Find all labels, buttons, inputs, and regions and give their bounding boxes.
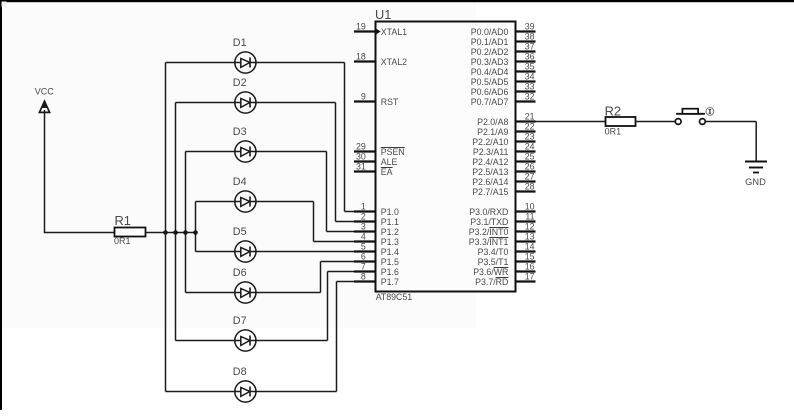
wire D3 vertical to pin row: [326, 152, 328, 232]
svg-text:D1: D1: [233, 37, 247, 49]
svg-text:P2.0/A8: P2.0/A8: [477, 117, 508, 127]
pin 22 (P2.1/A9) stub: [516, 130, 536, 132]
pin name P1.7: [381, 277, 399, 287]
pin name P0.3/AD3: [471, 57, 509, 67]
svg-text:32: 32: [525, 91, 535, 101]
pin name P3.5/T1: [478, 257, 509, 267]
wire D8 cathode side: [255, 391, 337, 393]
pin 13 (P3.3/INT1) stub: [516, 240, 536, 242]
svg-text:P1.5: P1.5: [381, 257, 399, 267]
wire D7 cathode side: [255, 340, 328, 342]
pin name P2.7/A15: [472, 187, 508, 197]
pin 33 (P0.6/AD6) stub: [516, 90, 536, 92]
wire D8 vertical to pin row: [336, 282, 338, 392]
svg-text:D4: D4: [233, 176, 247, 188]
pin name P0.1/AD1: [471, 37, 509, 47]
svg-text:21: 21: [525, 111, 535, 121]
wire D4 to chip pin: [314, 241, 376, 243]
svg-text:P2.3/A11: P2.3/A11: [473, 147, 509, 157]
pin name P2.2/A10: [472, 137, 508, 147]
svg-text:D7: D7: [233, 315, 247, 327]
pin 9 (RST) stub: [354, 100, 376, 102]
pin name P3.0/RXD: [469, 207, 508, 217]
IC U1 AT89C51 body: [375, 7, 516, 302]
pin 12 (P3.2/INT0) stub: [516, 230, 536, 232]
svg-text:0R1: 0R1: [114, 236, 131, 246]
svg-text:P2.4/A12: P2.4/A12: [472, 157, 508, 167]
pin name RST: [381, 97, 399, 107]
pin name P3.2/INT0: [469, 227, 509, 237]
pin name P1.0: [381, 207, 399, 217]
svg-text:27: 27: [525, 171, 535, 181]
wire D7 anode side: [176, 340, 237, 342]
pin name P1.1: [381, 217, 399, 227]
ground symbol GND: [745, 162, 767, 188]
svg-text:26: 26: [525, 161, 535, 171]
svg-text:P3.1/TXD: P3.1/TXD: [470, 217, 508, 227]
wire left vertical bus 4: [195, 202, 197, 252]
svg-text:P1.0: P1.0: [381, 207, 399, 217]
junction node J1: [163, 230, 168, 235]
wire pin 21 to R2: [536, 121, 606, 123]
pin 6 (P1.5) stub: [354, 260, 376, 262]
pin 26 (P2.5/A13) stub: [516, 170, 536, 172]
svg-text:D5: D5: [233, 226, 247, 238]
pin 23 (P2.2/A10) stub: [516, 140, 536, 142]
svg-text:P0.0/AD0: P0.0/AD0: [471, 27, 509, 37]
wire D8 to chip pin: [337, 281, 376, 283]
pin 19 (XTAL1) stub: [354, 30, 376, 32]
svg-text:P1.3: P1.3: [381, 237, 399, 247]
LED D1: [233, 37, 256, 73]
svg-text:2: 2: [361, 211, 366, 221]
svg-text:39: 39: [525, 21, 535, 31]
svg-text:VCC: VCC: [35, 87, 55, 97]
pin name P1.2: [381, 227, 399, 237]
svg-text:28: 28: [525, 181, 535, 191]
pin 5 (P1.4) stub: [354, 250, 376, 252]
pin name P0.4/AD4: [471, 67, 509, 77]
svg-text:D3: D3: [233, 126, 247, 138]
svg-text:5: 5: [361, 241, 366, 251]
svg-text:P2.7/A15: P2.7/A15: [472, 187, 508, 197]
pin 16 (P3.6/WR) stub: [516, 270, 536, 272]
wire switch to GND corner: [705, 121, 756, 123]
wire D4 cathode side: [255, 201, 314, 203]
svg-text:P0.2/AD2: P0.2/AD2: [471, 47, 509, 57]
pin name P0.5/AD5: [471, 77, 509, 87]
LED D6: [233, 267, 256, 303]
wire D5 anode side: [196, 251, 237, 253]
svg-text:GND: GND: [745, 177, 766, 187]
pin 10 (P3.0/RXD) stub: [516, 210, 536, 212]
pin name XTAL2: [381, 57, 407, 67]
pin name XTAL1: [376, 27, 407, 37]
pin 8 (P1.7) stub: [354, 280, 376, 282]
pin name P0.6/AD6: [471, 87, 509, 97]
pin name P1.3: [381, 237, 399, 247]
svg-text:9: 9: [361, 91, 366, 101]
pin 34 (P0.5/AD5) stub: [516, 80, 536, 82]
svg-text:P2.6/A14: P2.6/A14: [472, 177, 508, 187]
pin 32 (P0.7/AD7) stub: [516, 100, 536, 102]
junction node J2: [173, 230, 178, 235]
svg-text:P3.4/T0: P3.4/T0: [478, 247, 509, 257]
LED D5: [233, 226, 256, 262]
wire left vertical bus 1: [165, 63, 167, 392]
svg-text:P1.7: P1.7: [381, 277, 399, 287]
pin 4 (P1.3) stub: [354, 240, 376, 242]
svg-text:P3.0/RXD: P3.0/RXD: [469, 207, 508, 217]
wire left vertical bus 3: [185, 152, 187, 293]
wire VCC stem: [44, 110, 46, 233]
svg-text:8: 8: [361, 271, 366, 281]
wire R2 to switch: [635, 121, 675, 123]
pin name PSEN: [381, 147, 405, 157]
LED D7: [233, 315, 256, 351]
svg-text:P3.7/RD: P3.7/RD: [475, 277, 508, 287]
pin name P2.4/A12: [472, 157, 508, 167]
svg-text:P0.5/AD5: P0.5/AD5: [471, 77, 509, 87]
pin name P3.4/T0: [478, 247, 509, 257]
svg-text:17: 17: [525, 271, 535, 281]
pin name P3.3/INT1: [469, 237, 509, 247]
pin name P3.6/WR: [473, 267, 508, 277]
svg-text:16: 16: [525, 261, 535, 271]
pin name P2.5/A13: [472, 167, 508, 177]
pin 7 (P1.6) stub: [354, 270, 376, 272]
svg-text:35: 35: [525, 61, 535, 71]
LED D2: [233, 77, 256, 113]
pin 3 (P1.2) stub: [354, 230, 376, 232]
pin name P0.7/AD7: [471, 97, 509, 107]
wire R1 to LED bus: [146, 232, 196, 234]
switch actuation marker: [706, 108, 714, 116]
pin name P2.6/A14: [472, 177, 508, 187]
wire VCC to R1: [44, 232, 115, 234]
svg-text:24: 24: [525, 141, 535, 151]
svg-text:30: 30: [356, 151, 366, 161]
svg-text:31: 31: [356, 161, 366, 171]
svg-text:11: 11: [525, 211, 534, 221]
svg-text:P2.5/A13: P2.5/A13: [472, 167, 508, 177]
svg-text:ALE: ALE: [381, 157, 398, 167]
pin name P2.0/A8: [477, 117, 508, 127]
pin name P1.5: [381, 257, 399, 267]
wire D2 cathode side: [255, 102, 336, 104]
pin name P1.4: [381, 247, 399, 257]
wire D6 vertical to pin row: [320, 262, 322, 293]
pin 15 (P3.5/T1) stub: [516, 260, 536, 262]
pin 17 (P3.7/RD) stub: [516, 280, 536, 282]
svg-text:XTAL2: XTAL2: [381, 57, 407, 67]
svg-text:14: 14: [525, 241, 535, 251]
svg-text:P0.6/AD6: P0.6/AD6: [471, 87, 509, 97]
wire D1 anode side: [166, 62, 237, 64]
wire D1 cathode side: [255, 62, 345, 64]
svg-text:10: 10: [525, 201, 535, 211]
svg-text:36: 36: [525, 51, 535, 61]
wire D6 anode side: [186, 292, 237, 294]
svg-text:34: 34: [525, 71, 535, 81]
svg-text:EA: EA: [381, 167, 393, 177]
pin 14 (P3.4/T0) stub: [516, 250, 536, 252]
pin name P3.7/RD: [475, 277, 508, 287]
svg-text:P3.6/WR: P3.6/WR: [473, 267, 508, 277]
LED D4: [233, 176, 256, 212]
pin 36 (P0.3/AD3) stub: [516, 60, 536, 62]
svg-text:D8: D8: [233, 366, 247, 378]
svg-text:12: 12: [525, 221, 535, 231]
pin 30 (ALE) stub: [354, 160, 376, 162]
pin name P0.2/AD2: [471, 47, 509, 57]
junction node J4: [193, 230, 198, 235]
svg-text:D6: D6: [233, 267, 247, 279]
svg-text:P0.3/AD3: P0.3/AD3: [471, 57, 509, 67]
pin 39 (P0.0/AD0) stub: [516, 30, 536, 32]
svg-text:P3.2/INT0: P3.2/INT0: [469, 227, 509, 237]
wire D4 vertical to pin row: [313, 202, 315, 242]
wire D7 to chip pin: [328, 271, 376, 273]
wire D6 to chip pin: [321, 261, 376, 263]
pin 1 (P1.0) stub: [354, 210, 376, 212]
svg-text:P3.5/T1: P3.5/T1: [478, 257, 509, 267]
pin 24 (P2.3/A11) stub: [516, 150, 536, 152]
pin 2 (P1.1) stub: [354, 220, 376, 222]
svg-text:19: 19: [356, 21, 366, 31]
pin 11 (P3.1/TXD) stub: [516, 220, 536, 222]
wire D2 to chip pin: [336, 221, 376, 223]
svg-text:7: 7: [361, 261, 366, 271]
wire D8 anode side: [166, 391, 237, 393]
svg-text:D2: D2: [233, 77, 247, 89]
svg-text:29: 29: [356, 141, 366, 151]
wire D3 to chip pin: [327, 231, 376, 233]
pin 29 (PSEN) stub: [354, 150, 376, 152]
svg-text:6: 6: [361, 251, 366, 261]
wire D6 cathode side: [255, 292, 321, 294]
svg-text:P1.6: P1.6: [381, 267, 399, 277]
power symbol VCC: [35, 87, 55, 113]
svg-text:13: 13: [525, 231, 535, 241]
pin 25 (P2.4/A12) stub: [516, 160, 536, 162]
svg-text:P0.1/AD1: P0.1/AD1: [471, 37, 509, 47]
wire D3 cathode side: [255, 151, 327, 153]
svg-text:33: 33: [525, 81, 535, 91]
wire D4 anode side: [196, 201, 237, 203]
wire left vertical bus 2: [175, 103, 177, 341]
wire D7 vertical to pin row: [327, 272, 329, 341]
svg-text:R2: R2: [605, 103, 621, 118]
pin name EA: [381, 167, 393, 177]
svg-text:U1: U1: [375, 7, 391, 22]
pin name P1.6: [381, 267, 399, 277]
pin 18 (XTAL2) stub: [354, 60, 376, 62]
pin 27 (P2.6/A14) stub: [516, 180, 536, 182]
svg-text:18: 18: [356, 51, 366, 61]
pin name P2.1/A9: [477, 127, 508, 137]
svg-text:15: 15: [525, 251, 535, 261]
svg-text:XTAL1: XTAL1: [381, 27, 407, 37]
pin name P0.0/AD0: [471, 27, 509, 37]
wire D3 anode side: [186, 151, 237, 153]
pin 37 (P0.2/AD2) stub: [516, 50, 536, 52]
wire D2 anode side: [176, 102, 237, 104]
svg-text:R1: R1: [115, 213, 131, 228]
wire D5 cathode to pin P1.4: [255, 251, 376, 253]
junction node J3: [183, 230, 188, 235]
pin 21 (P2.0/A8) stub: [516, 120, 536, 122]
resistor R2: [605, 103, 636, 126]
svg-text:P2.2/A10: P2.2/A10: [472, 137, 508, 147]
wire D1 to chip pin: [345, 211, 376, 213]
svg-text:P0.4/AD4: P0.4/AD4: [471, 67, 509, 77]
svg-text:3: 3: [361, 221, 366, 231]
LED D3: [233, 126, 256, 162]
svg-text:PSEN: PSEN: [381, 147, 405, 157]
pin name P2.3/A11: [473, 147, 509, 157]
pin 28 (P2.7/A15) stub: [516, 190, 536, 192]
svg-text:P2.1/A9: P2.1/A9: [477, 127, 508, 137]
wire D2 vertical to pin row: [335, 103, 337, 222]
svg-text:25: 25: [525, 151, 535, 161]
pin 31 (EA) stub: [354, 170, 376, 172]
pin name P3.1/TXD: [470, 217, 508, 227]
svg-text:P1.4: P1.4: [381, 247, 399, 257]
pin name ALE: [381, 157, 398, 167]
LED D8: [233, 366, 256, 402]
svg-text:P3.3/INT1: P3.3/INT1: [469, 237, 509, 247]
wire D1 vertical to pin row: [344, 63, 346, 212]
svg-text:1: 1: [361, 201, 366, 211]
wire down to GND: [755, 122, 757, 162]
svg-text:P1.2: P1.2: [381, 227, 399, 237]
push-button switch: [675, 109, 705, 125]
svg-text:37: 37: [525, 41, 535, 51]
svg-text:38: 38: [525, 31, 535, 41]
svg-text:22: 22: [525, 121, 535, 131]
svg-text:P0.7/AD7: P0.7/AD7: [471, 97, 509, 107]
pin 35 (P0.4/AD4) stub: [516, 70, 536, 72]
svg-text:AT89C51: AT89C51: [376, 292, 413, 302]
svg-text:0R1: 0R1: [605, 127, 622, 137]
svg-text:23: 23: [525, 131, 535, 141]
resistor R1: [115, 213, 146, 237]
pin 38 (P0.1/AD1) stub: [516, 40, 536, 42]
svg-text:4: 4: [361, 231, 366, 241]
svg-text:RST: RST: [381, 97, 399, 107]
svg-text:P1.1: P1.1: [381, 217, 399, 227]
